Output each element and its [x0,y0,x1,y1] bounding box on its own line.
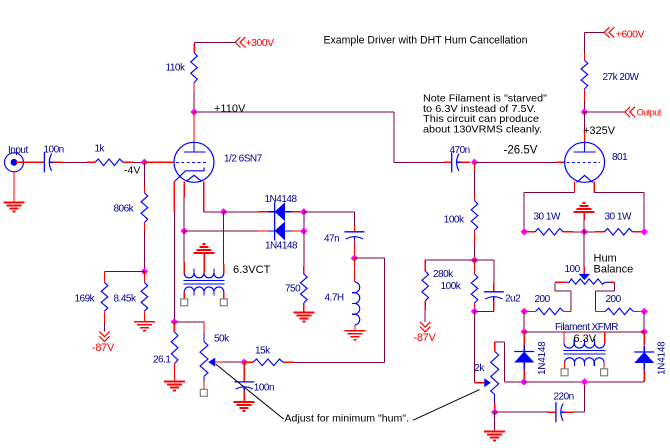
resistor 30 1W (left) [535,229,563,236]
ground above center (inverted) [583,212,585,220]
junction 200 row left [521,308,528,315]
wire diode bottom row [524,381,644,383]
wire output node to 801 plate [583,112,585,130]
svg-text:1N4148: 1N4148 [537,341,548,375]
resistor 200 (right) [605,308,633,315]
wire node down to 6.3VCT right lead [223,212,225,264]
junction D2 right node [300,227,307,234]
wire 2k node to 220n [495,411,547,413]
wire R750 to ground [303,303,305,313]
wire xfmr top [524,331,644,333]
svg-text:100n: 100n [254,383,274,394]
resistor 200 (left) [536,308,564,315]
input jack J1 [5,153,24,172]
wire node to 50k pot [174,321,204,323]
junction lower diode left node [181,227,188,234]
pin 100 pot right [609,281,614,283]
junction 30ohm row left [521,228,528,235]
wire node to R169k [105,271,145,273]
wire R200 right to column [633,310,644,312]
pin T1 bottom right [223,292,225,299]
wire to 2k wiper [475,382,485,384]
svg-text:1N4148: 1N4148 [265,194,298,205]
50k wiper arrow [208,358,215,367]
T2 core [563,350,605,352]
resistor 27k 20W [581,60,588,89]
svg-text:Example Driver with DHT Hum Ca: Example Driver with DHT Hum Cancellation [324,35,528,47]
wire R100k to mid node [474,231,476,244]
wire left column to T1 [183,231,185,262]
svg-text:100n: 100n [44,145,64,156]
wire right column to D4 [643,332,645,345]
wire node to L4.7H [353,258,355,282]
svg-text:about 130VRMS cleanly.: about 130VRMS cleanly. [423,124,542,136]
svg-text:+600V: +600V [616,28,645,40]
svg-text:Filament XFMR: Filament XFMR [555,322,618,333]
ground below 26.1 [164,381,185,383]
pin 6SN7 heater left [183,181,185,197]
pin T2 bottom left [564,362,566,369]
svg-text:26.1: 26.1 [153,355,171,366]
terminal pad T1 bottom left [181,299,188,306]
capacitor 100n (input) [43,152,45,172]
svg-text:15k: 15k [255,346,271,357]
wire node to R8.45k [143,272,145,283]
power port -87V (right) [420,322,430,332]
wire filament left to column [524,192,574,194]
junction heater/diode upper node [220,208,227,215]
wire node right and down to 15k wire [354,257,384,259]
resistor 280k [422,271,429,301]
6SN7 grid [176,161,209,163]
6SN7 plate [193,142,195,152]
svg-text:100k: 100k [444,215,465,226]
terminal pad T2 bottom left [561,369,568,376]
wire upper node to D1 [224,211,258,213]
wire R15k right to riser [283,361,294,363]
junction 47n/4.7H node [351,255,358,262]
T1 core [184,280,225,282]
wire filament right to column [594,192,644,194]
wire node to D2 [184,230,258,232]
svg-text:30 1W: 30 1W [534,212,561,223]
resistor 15k [253,359,283,366]
wire 50k wiper to node [215,361,224,363]
wire +600V to R27k [584,31,604,33]
wire to R200 left [524,310,535,312]
pin T1 right top lead [223,264,225,273]
svg-text:1N4148: 1N4148 [656,341,667,375]
svg-text:30 1W: 30 1W [605,212,632,223]
wire center to R30 right [584,231,595,233]
wire node down to R100k [474,162,476,172]
diode D4 1N4148 (right) [634,351,654,353]
svg-text:+110V: +110V [214,103,246,115]
wire R30 left to center [563,231,573,233]
diode D2 1N4148 (lower) [274,221,276,240]
junction 2k bottom node [491,409,498,416]
wire D4 to bottom row [643,370,645,382]
svg-text:2u2: 2u2 [505,293,521,304]
pin T2 bottom right [603,362,605,369]
svg-text:220n: 220n [554,391,574,402]
6SN7 heater [186,175,202,181]
wire 47n to node [353,241,355,255]
callout line to 2k wiper [413,390,480,421]
pin T1 bottom left [183,292,185,299]
svg-text:1k: 1k [95,144,106,155]
svg-text:200: 200 [535,294,551,305]
wire corner to R200 right [595,310,605,312]
node -4V junction [141,159,148,166]
wire heater left down to xfmr [183,197,185,231]
wire to R30 left [524,231,535,233]
wire D1 to right node [292,211,301,213]
junction D1 right node [300,208,307,215]
wire R200 left to corner [564,310,571,312]
801 grid [567,161,601,163]
junction xfmr wire left [521,328,528,335]
triode U2 801 envelope [565,142,605,182]
svg-text:100k: 100k [441,281,462,292]
svg-text:110k: 110k [166,63,186,74]
svg-text:+325V: +325V [583,125,616,137]
wire columns down to xfmr wire [523,311,525,331]
junction 806k/169k/8.45k node [141,268,148,275]
ground below 8.45k [134,321,155,323]
T1 bottom winding [184,287,224,292]
diode D3 1N4148 (left) [514,351,534,353]
svg-text:-87V: -87V [414,332,437,344]
svg-text:6.3VCT: 6.3VCT [233,264,271,276]
transformer T2 Filament XFMR top winding [563,332,565,343]
pin 801 filament right [593,182,595,193]
power port +300V [235,37,245,47]
pin T1 CT lead [203,262,205,273]
ground above 6.3VCT center tap [203,253,205,262]
wire node to R15k [244,361,253,363]
power port -87V (left) [99,331,109,341]
junction 200 row right [641,308,648,315]
wire 2k top to diode row [495,341,505,343]
wire 26.1 to ground [174,364,176,382]
wire L4.7H to ground [354,325,356,331]
ground below 4.7H [344,330,365,332]
pin 50k bottom [203,381,205,389]
resistor 8.45k [141,282,148,311]
terminal pad T1 bottom right [220,299,227,306]
wire R1k to node -4V [123,161,134,163]
wire left column to D3 [523,332,525,345]
pin T1 left top lead [183,262,185,273]
capacitor 220n [555,402,557,422]
junction wiper/15k/100n node [241,359,248,366]
diode D1 1N4148 (upper) [274,202,276,221]
resistor 1k [95,159,123,166]
svg-text:4.7H: 4.7H [325,293,344,304]
svg-text:750: 750 [285,284,301,295]
wire node down to 2k wiper [474,311,476,382]
capacitor 100n (cathode) [234,381,254,383]
svg-text:169k: 169k [75,294,96,305]
junction mid node [471,257,478,264]
capacitor 470n [451,152,453,172]
wire node down to R806k [143,162,145,186]
wire 2u2 to node [493,301,495,312]
resistor 30 1W (right) [604,229,632,236]
svg-text:280k: 280k [433,269,454,280]
6SN7 cathode [175,168,205,182]
wire 100 left to 200 left [554,282,556,291]
wire R8.45k to ground [143,311,145,322]
svg-text:50k: 50k [214,334,230,345]
resistor 110k [191,53,198,83]
wire D2 to right node [292,230,301,232]
potentiometer 100 Hum Balance [566,279,609,284]
resistor 169k [101,282,108,311]
junction output node [581,108,588,115]
svg-text:806k: 806k [114,204,135,215]
wire C100n to R1k [53,161,63,163]
svg-text:1/2 6SN7: 1/2 6SN7 [224,153,263,164]
wire node to 801 grid [475,161,557,163]
2k wiper arrow [484,378,491,387]
wire between diode nodes [303,212,305,231]
wire 2k node to ground [494,412,496,431]
junction 30ohm row right [641,228,648,235]
junction xfmr wire right [641,328,648,335]
resistor 100k (lower) [471,274,478,303]
junction 30ohm row center [581,228,588,235]
wire R110k to plate node [193,83,195,92]
resistor 806k [141,193,148,223]
100 pot wiper arrow [579,274,590,280]
wire cathode to bottom node [173,212,175,322]
pin 6SN7 heater right [203,181,205,211]
potentiometer 2k [491,352,499,395]
pin input jack to C 100n [16,161,44,163]
pin 6SN7 cathode down [173,181,175,211]
ground below 750 [294,312,315,314]
wire center down to 100 pot wiper [583,232,585,267]
wire node to 26.1 [173,322,175,332]
svg-text:1N4148: 1N4148 [265,241,298,252]
wire R280k to -87V port [424,301,426,310]
801 filament [577,175,593,182]
svg-text:-26.5V: -26.5V [504,144,538,156]
capacitor 47n [344,231,364,233]
svg-text:801: 801 [612,152,628,163]
junction diode row left [520,378,527,385]
resistor 750 [301,274,308,303]
svg-text:47n: 47n [324,233,339,244]
pin plate 6SN7 [193,112,195,142]
inductor 4.7H [355,282,360,325]
svg-text:100: 100 [565,264,581,275]
wire R30 right to column [632,231,644,233]
triode U1 1/2 6SN7 envelope [174,142,214,182]
svg-text:200: 200 [606,294,622,305]
transformer T1 6.3VCT top winding [184,273,224,278]
resistor 26.1 [171,332,178,364]
wire node to 6SN7 grid [144,161,174,163]
801 plate [584,142,586,152]
ground at input jack [13,172,15,203]
wire mid node to R100k lower [474,260,476,274]
svg-text:-87V: -87V [92,342,115,354]
wire upper right node to 47n corner [304,211,355,213]
junction -26.5V node [471,159,478,166]
wire 100n to ground [243,391,245,402]
wire 220n to center riser [565,411,574,413]
wire heater right to diode node [204,211,224,213]
svg-text:Input: Input [8,145,28,156]
pin 100 pot left [555,281,566,283]
wire mid node to R280k [425,259,474,261]
wire node down to 100n [243,362,245,382]
resistor 100k (upper) [471,201,478,231]
svg-text:2k: 2k [474,363,485,374]
junction cathode bottom node [171,318,178,325]
wire R806k to lower node [143,223,145,231]
svg-text:Output: Output [637,107,662,117]
callout line to 50k wiper [216,364,284,419]
svg-text:Balance: Balance [594,263,634,275]
node +110V junction [190,108,197,115]
svg-text:8.45k: 8.45k [114,294,137,305]
pin 801 filament left [574,182,576,193]
svg-text:-4V: -4V [124,165,140,177]
terminal pad 50k bottom [200,389,207,396]
potentiometer 50k [203,333,205,342]
power port +600V [604,27,614,37]
junction 100k/2u2 node [471,308,478,315]
pin 2k top [494,342,496,352]
junction diode row center [581,378,588,385]
wire 470n to -26.5V node [461,161,471,163]
power port Output [584,111,624,113]
svg-text:27k 20W: 27k 20W [603,72,640,83]
wire mid node to 2u2 [475,259,494,261]
wire 100 right to 200 right [613,282,615,291]
svg-text:6.3V: 6.3V [574,333,597,345]
wire +300V to R110k [194,41,235,43]
terminal pad T2 bottom right [601,369,608,376]
wire node down to R750 [303,231,305,266]
wire D3 to bottom row [523,369,525,379]
ground below 100n [234,401,255,403]
svg-text:+300V: +300V [246,37,275,49]
capacitor 2u2 [484,291,504,293]
wire R169k to -87V port [104,311,106,322]
wire R27k to output node [583,89,585,101]
svg-text:Adjust for minimum "hum".: Adjust for minimum "hum". [285,412,410,424]
wire R100k lower to node [474,303,476,311]
wire +110V to 470n corner [194,111,394,113]
svg-text:470n: 470n [450,145,470,156]
ground below 2k [484,430,505,432]
pin 2k bottom [494,403,496,411]
T2 bottom winding [565,358,605,363]
